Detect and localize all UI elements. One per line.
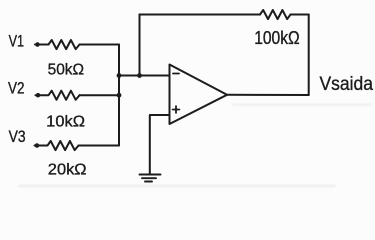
svg-text:20kΩ: 20kΩ: [48, 162, 87, 179]
junction dot feedback tap: [137, 73, 142, 78]
resistor R2 10k zigzag: [36, 91, 80, 100]
wire V1 resistor to bus: [80, 44, 120, 46]
op-amp plus sign: [173, 106, 180, 113]
svg-text:V2: V2: [8, 79, 25, 97]
ground symbol: [140, 175, 161, 182]
svg-text:100kΩ: 100kΩ: [254, 27, 300, 48]
resistor R4 100k zigzag: [260, 10, 291, 19]
wire op-amp output: [227, 94, 309, 96]
wire feedback right vertical down: [308, 15, 310, 96]
node V2 terminal dot: [36, 93, 41, 98]
resistor R3 20k zigzag: [35, 141, 79, 150]
node V3 terminal dot: [35, 143, 40, 148]
op-amp minus sign: [173, 73, 179, 75]
wire feedback vertical up: [139, 15, 141, 76]
wire input bus vertical: [118, 45, 120, 146]
junction dot bus V2: [117, 93, 122, 98]
svg-text:V3: V3: [9, 128, 26, 146]
wire non-inverting input to ground: [150, 115, 170, 174]
svg-text:Vsaida: Vsaida: [320, 74, 374, 95]
junction dot bus inverting node: [117, 73, 122, 78]
svg-text:50kΩ: 50kΩ: [48, 62, 85, 79]
wire V2 resistor to bus: [80, 94, 120, 96]
wire V3 resistor to bus: [79, 145, 120, 147]
svg-text:V1: V1: [9, 33, 25, 51]
wire bus to op-amp inverting input: [119, 75, 170, 77]
wire feedback top horizontal: [140, 14, 261, 16]
svg-text:10kΩ: 10kΩ: [46, 113, 85, 130]
op-amp U1 triangle: [170, 65, 228, 125]
wire feedback resistor to right corner: [291, 14, 309, 16]
resistor R1 50k zigzag: [35, 40, 80, 49]
node V1 terminal dot: [35, 42, 40, 47]
